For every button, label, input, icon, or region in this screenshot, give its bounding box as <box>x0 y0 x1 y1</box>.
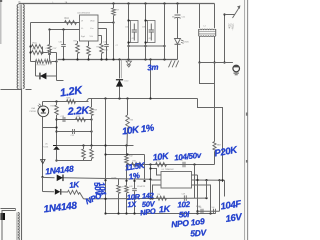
note NPO small <box>84 191 104 207</box>
capacitor C17 <box>43 48 58 55</box>
svg-text:C31: C31 <box>59 42 64 44</box>
svg-text:C18: C18 <box>142 27 145 29</box>
resistor R38 <box>67 98 76 104</box>
svg-text:Fgd: Fgd <box>81 36 86 38</box>
resistor R46 <box>87 41 91 60</box>
wire secondary main <box>150 60 152 99</box>
note 104 50V rotated <box>92 182 108 197</box>
wire column x224 <box>223 13 225 63</box>
note 10K lower <box>152 151 170 163</box>
label 220/275 vertical <box>227 24 233 32</box>
note 1N4148 lower <box>43 200 78 215</box>
wire U4 BP feed <box>31 22 80 24</box>
svg-text:470: 470 <box>132 38 135 40</box>
wire row y154 <box>104 153 144 155</box>
svg-text:104: 104 <box>199 207 202 209</box>
resistor R42 <box>36 60 44 64</box>
wire P1 <box>200 63 215 142</box>
wire P2 elbow <box>198 99 223 183</box>
wire sense to node <box>52 60 58 62</box>
wire x224 down <box>224 180 226 196</box>
wire clamp left leg <box>35 62 37 77</box>
resistor R50 1K <box>68 190 207 200</box>
node rail dots <box>62 58 165 60</box>
resistor R32 11K5 <box>125 146 134 186</box>
note 3m <box>147 63 159 73</box>
svg-text:1N4148: 1N4148 <box>43 200 78 215</box>
wire row y164 <box>127 163 215 165</box>
optocoupler U3 <box>30 104 49 117</box>
wire column x145 <box>145 4 147 60</box>
node R40 junctions <box>29 45 43 53</box>
transformer T1 core <box>20 5 21 90</box>
wire U1 pin1 <box>151 169 162 176</box>
svg-text:R33: R33 <box>130 120 135 122</box>
svg-text:470: 470 <box>149 38 152 40</box>
arrow to secondary <box>126 61 131 67</box>
wire cap row y210 <box>198 210 220 212</box>
wire bottom rail <box>105 213 216 215</box>
wire to choke left <box>199 4 201 29</box>
svg-text:2.2K: 2.2K <box>66 104 90 118</box>
wire U4 EN vertical <box>30 23 32 62</box>
capacitor C29 <box>182 194 187 201</box>
svg-text:LED6: LED6 <box>184 42 190 44</box>
svg-text:220n: 220n <box>227 24 230 30</box>
resistor R48 <box>117 179 124 214</box>
scan left edge dark bar <box>0 0 2 44</box>
svg-text:10K: 10K <box>152 151 170 163</box>
svg-text:C29: C29 <box>182 194 187 196</box>
diode D10 <box>116 60 129 99</box>
wire column x128 <box>128 4 130 60</box>
wire top right <box>225 14 235 16</box>
wire cap bottom rail <box>127 45 165 47</box>
resistor R30 <box>156 161 167 167</box>
svg-text:U1 TSM6502: U1 TSM6502 <box>162 169 175 171</box>
wire feedback bus y98 <box>89 98 198 100</box>
wire U4 VDD right <box>98 21 115 23</box>
wire transformer below <box>21 89 23 240</box>
wire R40-R41 join <box>42 47 44 53</box>
diode LED6 <box>175 39 190 45</box>
resistor R35 2K2 <box>51 102 59 146</box>
note 50V bottom <box>190 227 208 238</box>
svg-text:1N4148: 1N4148 <box>45 164 75 177</box>
wire LED6 bottom <box>177 45 179 60</box>
wire stub y89 <box>26 89 32 91</box>
wire sense row <box>31 61 36 63</box>
svg-text:Vss: Vss <box>90 28 95 30</box>
wire x150 <box>149 165 151 199</box>
svg-text:R39: R39 <box>94 110 99 112</box>
svg-text:VG: VG <box>90 36 93 38</box>
wire x42 lower <box>42 177 44 192</box>
svg-text:C33: C33 <box>71 135 76 137</box>
svg-text:5DV: 5DV <box>190 227 208 238</box>
svg-text:U3A: U3A <box>31 107 36 110</box>
wire row y146 <box>57 144 134 146</box>
svg-text:P20K: P20K <box>214 144 240 159</box>
wire opto anode <box>42 102 44 107</box>
capacitor C18 box <box>142 19 155 43</box>
black tape mark <box>1 213 6 220</box>
shunt reg U5 TL431 <box>43 144 60 161</box>
wire bend up to y98 <box>87 99 89 102</box>
resistor R36 <box>97 36 104 60</box>
svg-text:1K: 1K <box>158 204 171 215</box>
wire y208 left <box>1 208 16 210</box>
note 16V <box>225 212 243 225</box>
transformer T1 right winding <box>23 5 24 89</box>
svg-text:R40: R40 <box>33 43 38 45</box>
wire transformer top lead <box>19 3 25 5</box>
right border line <box>245 0 248 240</box>
svg-text:D10: D10 <box>125 81 130 83</box>
note 1K second <box>158 204 171 215</box>
label U4 pins <box>81 21 95 39</box>
resistor R45 <box>48 30 52 60</box>
arrow mains <box>233 5 241 18</box>
node U1 bottom right <box>205 197 207 199</box>
node top rail dots <box>112 2 178 4</box>
wire column x164 <box>164 4 166 60</box>
svg-text:104F: 104F <box>220 199 242 213</box>
label 3A <box>172 16 175 19</box>
wire row y131 <box>57 130 93 132</box>
svg-text:C16: C16 <box>125 27 128 29</box>
right border tick 2 <box>246 160 248 163</box>
svg-text:R32: R32 <box>129 156 134 158</box>
transformer T1 left winding <box>17 5 18 89</box>
wire x206 <box>206 180 208 198</box>
note 1K first <box>69 180 81 190</box>
label R29A <box>112 177 118 180</box>
wire clamp right vertical <box>56 53 58 81</box>
note 1.2K <box>59 84 84 99</box>
diode D12 1N4148 <box>43 189 68 195</box>
svg-text:4R7: 4R7 <box>115 10 120 12</box>
wire row y119 <box>57 118 93 120</box>
wire x144 <box>144 155 146 180</box>
wire x127 upper <box>127 99 129 116</box>
svg-text:U5: U5 <box>45 144 48 146</box>
capacitor C33 <box>71 129 76 137</box>
svg-text:R44: R44 <box>65 18 70 20</box>
svg-text:1%: 1% <box>128 171 140 181</box>
note P20K <box>214 144 240 159</box>
wire primary rail <box>58 59 178 61</box>
resistor R52 <box>125 186 129 214</box>
right margin <box>248 0 253 240</box>
trimmer P20K <box>213 142 221 152</box>
svg-text:SAR: SAR <box>217 144 222 147</box>
wire row y160 <box>57 160 92 162</box>
svg-text:PS2561: PS2561 <box>30 111 37 113</box>
capacitor C31 <box>59 30 66 60</box>
resistor R44 <box>65 18 77 25</box>
svg-text:100n: 100n <box>104 50 109 52</box>
wire top rail <box>19 3 215 5</box>
node y98 dots <box>104 97 151 99</box>
wire choke down right <box>214 36 216 63</box>
capacitor C41 <box>212 207 216 214</box>
svg-text:104/50v: 104/50v <box>174 151 202 163</box>
wire C11 to LED <box>177 18 179 39</box>
wire to choke right <box>214 4 216 29</box>
svg-text:C7: C7 <box>116 45 118 47</box>
node x56 dots <box>55 118 57 161</box>
resistor R47 <box>90 146 94 161</box>
capacitor C37b <box>180 160 185 167</box>
wire x219 <box>219 180 221 211</box>
wire y62 <box>200 62 233 64</box>
node diode row dots <box>104 179 145 182</box>
resistor R43 <box>37 60 52 67</box>
wire U1 out1 <box>192 174 198 176</box>
resistor R37 <box>76 116 86 122</box>
svg-text:1.2K: 1.2K <box>59 84 84 99</box>
resistor R40 <box>32 43 43 49</box>
svg-text:NPO: NPO <box>140 206 157 217</box>
note 11.5K <box>125 161 147 182</box>
resistor R39 <box>90 99 98 146</box>
note NPO 109 <box>171 216 206 229</box>
diode D11 1N4148 <box>41 175 150 182</box>
node choke bottom <box>198 61 215 63</box>
terminal E1 <box>233 65 240 75</box>
note 1N4148 upper <box>45 164 75 177</box>
wire U1 pin2 <box>151 179 162 181</box>
wire left to transformer <box>1 89 22 91</box>
resistor R34 <box>82 146 86 161</box>
note 104F <box>220 199 242 213</box>
wire choke down left <box>199 36 201 63</box>
svg-text:12G4C29: 12G4C29 <box>137 186 145 188</box>
svg-text:VI: VI <box>81 21 83 23</box>
wire row y127 <box>43 126 58 128</box>
svg-text:C38: C38 <box>61 116 66 118</box>
resistor R51 <box>74 41 80 60</box>
wire C29 up <box>194 165 196 199</box>
capacitor C11 <box>174 15 186 19</box>
wire U1 out2 <box>192 179 225 181</box>
wire U4 pin2 left <box>48 28 79 30</box>
svg-text:1K: 1K <box>69 180 81 190</box>
svg-text:U4 LNK625G: U4 LNK625G <box>77 13 90 15</box>
op-amp U4 LNK625 box <box>77 13 98 41</box>
svg-text:16V: 16V <box>225 212 243 225</box>
capacitor C40 <box>199 207 203 214</box>
op-amp U1 box <box>161 169 192 188</box>
svg-text:102: 102 <box>177 200 191 210</box>
note 2.2K <box>66 104 90 118</box>
note 102 <box>177 200 191 220</box>
wire opto feed y101 <box>43 100 89 102</box>
wire x197 <box>196 175 198 214</box>
resistor R41 <box>32 49 43 55</box>
svg-text:R41: R41 <box>33 49 38 51</box>
svg-text:C37: C37 <box>53 48 58 50</box>
diode D3 clamp <box>36 73 57 80</box>
resistor R4 1K <box>157 194 167 200</box>
wire x105 <box>104 99 106 214</box>
right border tick 1 <box>246 113 248 116</box>
resistor R49 <box>112 4 120 60</box>
note 10R <box>127 192 141 209</box>
wire clamp bottom stub <box>57 80 64 82</box>
wire U1 out3 <box>192 185 211 214</box>
capacitor C38 <box>61 116 66 122</box>
capacitor C16 box <box>125 19 138 43</box>
svg-text:VDD: VDD <box>90 21 95 23</box>
svg-text:A39: A39 <box>120 186 123 189</box>
capacitor C39 <box>129 179 145 214</box>
svg-text:LL: LL <box>81 28 84 30</box>
svg-text:RV2 100n: RV2 100n <box>37 65 47 67</box>
note 10K 1% upper <box>122 123 156 138</box>
wire scan double <box>120 60 122 79</box>
svg-text:C43: C43 <box>129 186 132 188</box>
wire U1 pin3 <box>153 185 162 199</box>
note 104/50v <box>174 151 202 163</box>
wire column x177 <box>177 4 179 14</box>
svg-text:R35: R35 <box>51 106 54 108</box>
ground symbol <box>169 61 179 68</box>
svg-text:C11: C11 <box>182 17 187 19</box>
resistor R31 <box>132 161 143 167</box>
svg-text:TL431: TL431 <box>43 147 48 149</box>
node bottom rail dots <box>104 212 211 214</box>
svg-text:275V~: 275V~ <box>230 24 233 32</box>
inductor L2 <box>199 26 216 37</box>
svg-text:104: 104 <box>212 207 215 209</box>
marker arrow <box>41 160 46 164</box>
transformer T1 aux winding <box>2 209 19 240</box>
label fuse <box>18 1 68 4</box>
svg-text:L2: L2 <box>204 26 207 28</box>
capacitor C10 <box>98 29 109 60</box>
svg-text:3m: 3m <box>147 63 159 73</box>
label smaj <box>116 45 201 208</box>
note 142 <box>140 191 157 218</box>
wire P1 lower <box>214 152 216 165</box>
resistor R33 10K <box>126 115 134 146</box>
wire opto cathode <box>42 117 44 177</box>
